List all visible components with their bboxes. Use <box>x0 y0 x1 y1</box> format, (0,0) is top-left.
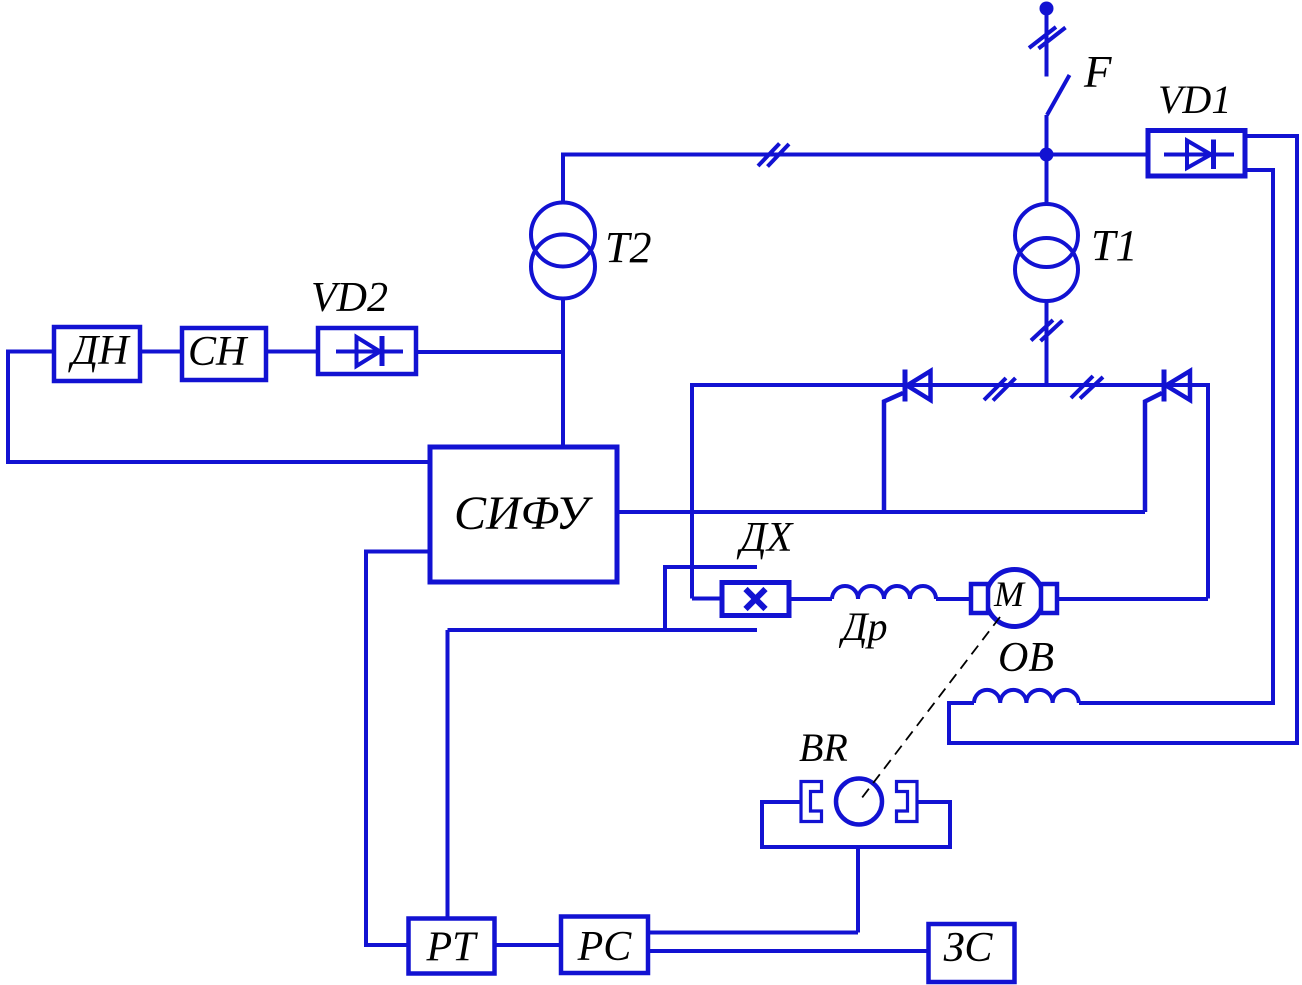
svg-text:BR: BR <box>799 725 848 770</box>
svg-text:ОВ: ОВ <box>998 635 1054 681</box>
svg-text:ДХ: ДХ <box>736 515 795 561</box>
svg-text:ДН: ДН <box>68 328 132 374</box>
svg-text:VD2: VD2 <box>311 275 388 321</box>
svg-text:F: F <box>1083 47 1112 97</box>
svg-text:СИФУ: СИФУ <box>454 487 594 540</box>
svg-text:РС: РС <box>577 924 633 970</box>
svg-text:VD1: VD1 <box>1158 77 1231 122</box>
svg-text:ЗС: ЗС <box>944 925 994 971</box>
svg-text:T1: T1 <box>1091 221 1137 270</box>
svg-text:T2: T2 <box>605 223 651 272</box>
svg-text:М: М <box>993 574 1026 614</box>
svg-text:РТ: РТ <box>425 925 478 971</box>
svg-text:Др: Др <box>838 604 887 649</box>
svg-text:СН: СН <box>188 329 249 375</box>
